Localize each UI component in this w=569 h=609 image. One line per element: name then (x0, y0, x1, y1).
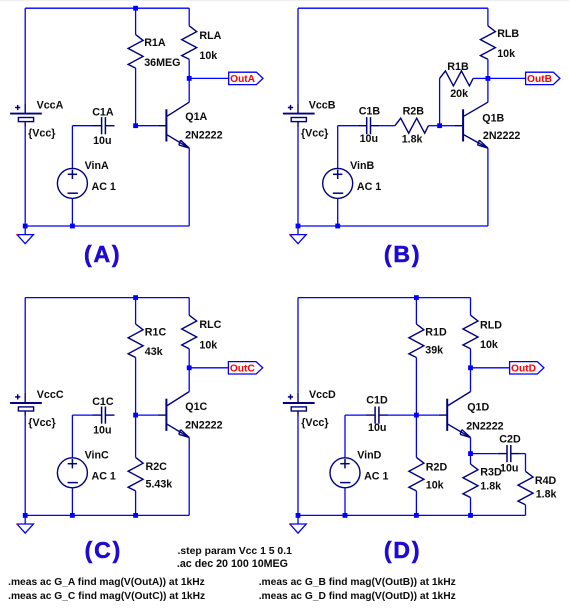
svg-text:2N2222: 2N2222 (185, 419, 222, 431)
svg-text:RLD: RLD (480, 320, 502, 332)
svg-text:5.43k: 5.43k (146, 478, 173, 490)
svg-text:VinA: VinA (85, 160, 109, 172)
svg-text:10u: 10u (368, 422, 386, 434)
svg-text:10u: 10u (93, 425, 111, 437)
svg-text:Q1D: Q1D (467, 402, 489, 414)
svg-text:C2D: C2D (499, 434, 521, 446)
svg-text:.meas ac G_A find mag(V(OutA)): .meas ac G_A find mag(V(OutA)) at 1kHz (8, 577, 205, 588)
svg-text:C1D: C1D (366, 395, 388, 407)
svg-text:10k: 10k (199, 339, 217, 351)
svg-text:C1B: C1B (359, 106, 381, 118)
svg-text:{Vcc}: {Vcc} (301, 417, 328, 429)
svg-text:RLC: RLC (199, 319, 221, 331)
svg-text:{Vcc}: {Vcc} (28, 128, 55, 140)
svg-text:2N2222: 2N2222 (466, 420, 503, 432)
svg-text:20k: 20k (450, 88, 468, 100)
svg-text:36MEG: 36MEG (144, 57, 180, 69)
svg-text:10k: 10k (426, 480, 444, 492)
svg-text:OutD: OutD (511, 364, 536, 375)
svg-text:.meas ac G_B find mag(V(OutB)): .meas ac G_B find mag(V(OutB)) at 1kHz (259, 577, 456, 588)
svg-text:RLB: RLB (497, 28, 519, 40)
svg-text:10k: 10k (497, 48, 515, 60)
svg-text:OutC: OutC (230, 364, 256, 375)
svg-text:1.8k: 1.8k (536, 489, 557, 501)
svg-text:(C): (C) (85, 537, 122, 563)
svg-text:R4D: R4D (535, 475, 557, 487)
svg-text:AC 1: AC 1 (92, 470, 116, 482)
svg-text:10k: 10k (199, 50, 217, 62)
svg-text:VccD: VccD (309, 389, 336, 401)
svg-text:.meas ac G_C find mag(V(OutC)): .meas ac G_C find mag(V(OutC)) at 1kHz (8, 591, 205, 602)
svg-text:OutA: OutA (230, 74, 256, 85)
svg-text:.ac dec 20 100 10MEG: .ac dec 20 100 10MEG (177, 558, 288, 570)
svg-text:R1D: R1D (425, 327, 447, 339)
svg-text:VinD: VinD (357, 450, 381, 462)
svg-text:VccC: VccC (37, 389, 64, 401)
svg-text:10u: 10u (500, 462, 518, 474)
svg-text:R1B: R1B (447, 61, 469, 73)
svg-text:{Vcc}: {Vcc} (301, 128, 328, 140)
svg-text:10u: 10u (93, 135, 111, 147)
svg-text:RLA: RLA (199, 30, 221, 42)
svg-text:R2C: R2C (146, 461, 168, 473)
svg-text:VinB: VinB (350, 160, 374, 172)
svg-text:(A): (A) (84, 241, 121, 267)
svg-text:(B): (B) (384, 241, 421, 267)
svg-text:1.8k: 1.8k (402, 133, 423, 145)
svg-text:OutB: OutB (527, 74, 552, 85)
svg-text:2N2222: 2N2222 (185, 129, 222, 141)
svg-text:(D): (D) (384, 537, 421, 563)
svg-text:.meas ac G_D find mag(V(OutD)): .meas ac G_D find mag(V(OutD)) at 1kHz (259, 591, 456, 602)
svg-text:R3D: R3D (480, 466, 502, 478)
svg-text:39k: 39k (425, 345, 443, 357)
svg-text:43k: 43k (145, 346, 163, 358)
svg-text:R2B: R2B (403, 106, 425, 118)
svg-text:Q1C: Q1C (185, 401, 207, 413)
svg-text:R1A: R1A (144, 37, 166, 49)
svg-text:.step param Vcc 1 5 0.1: .step param Vcc 1 5 0.1 (178, 546, 293, 557)
svg-text:C1A: C1A (92, 107, 114, 119)
svg-text:2N2222: 2N2222 (483, 130, 520, 142)
svg-text:10k: 10k (480, 339, 498, 351)
svg-text:AC 1: AC 1 (364, 470, 388, 482)
svg-text:VinC: VinC (85, 450, 109, 462)
svg-text:R1C: R1C (145, 327, 167, 339)
svg-text:R2D: R2D (426, 462, 448, 474)
svg-text:Q1B: Q1B (482, 112, 504, 124)
svg-text:VccA: VccA (37, 99, 64, 111)
svg-text:AC 1: AC 1 (92, 181, 116, 193)
svg-text:VccB: VccB (309, 99, 336, 111)
svg-text:Q1A: Q1A (185, 111, 207, 123)
svg-text:10u: 10u (360, 133, 378, 145)
svg-text:{Vcc}: {Vcc} (28, 417, 55, 429)
svg-text:C1C: C1C (92, 396, 114, 408)
svg-text:AC 1: AC 1 (357, 181, 381, 193)
svg-text:1.8k: 1.8k (480, 481, 501, 493)
